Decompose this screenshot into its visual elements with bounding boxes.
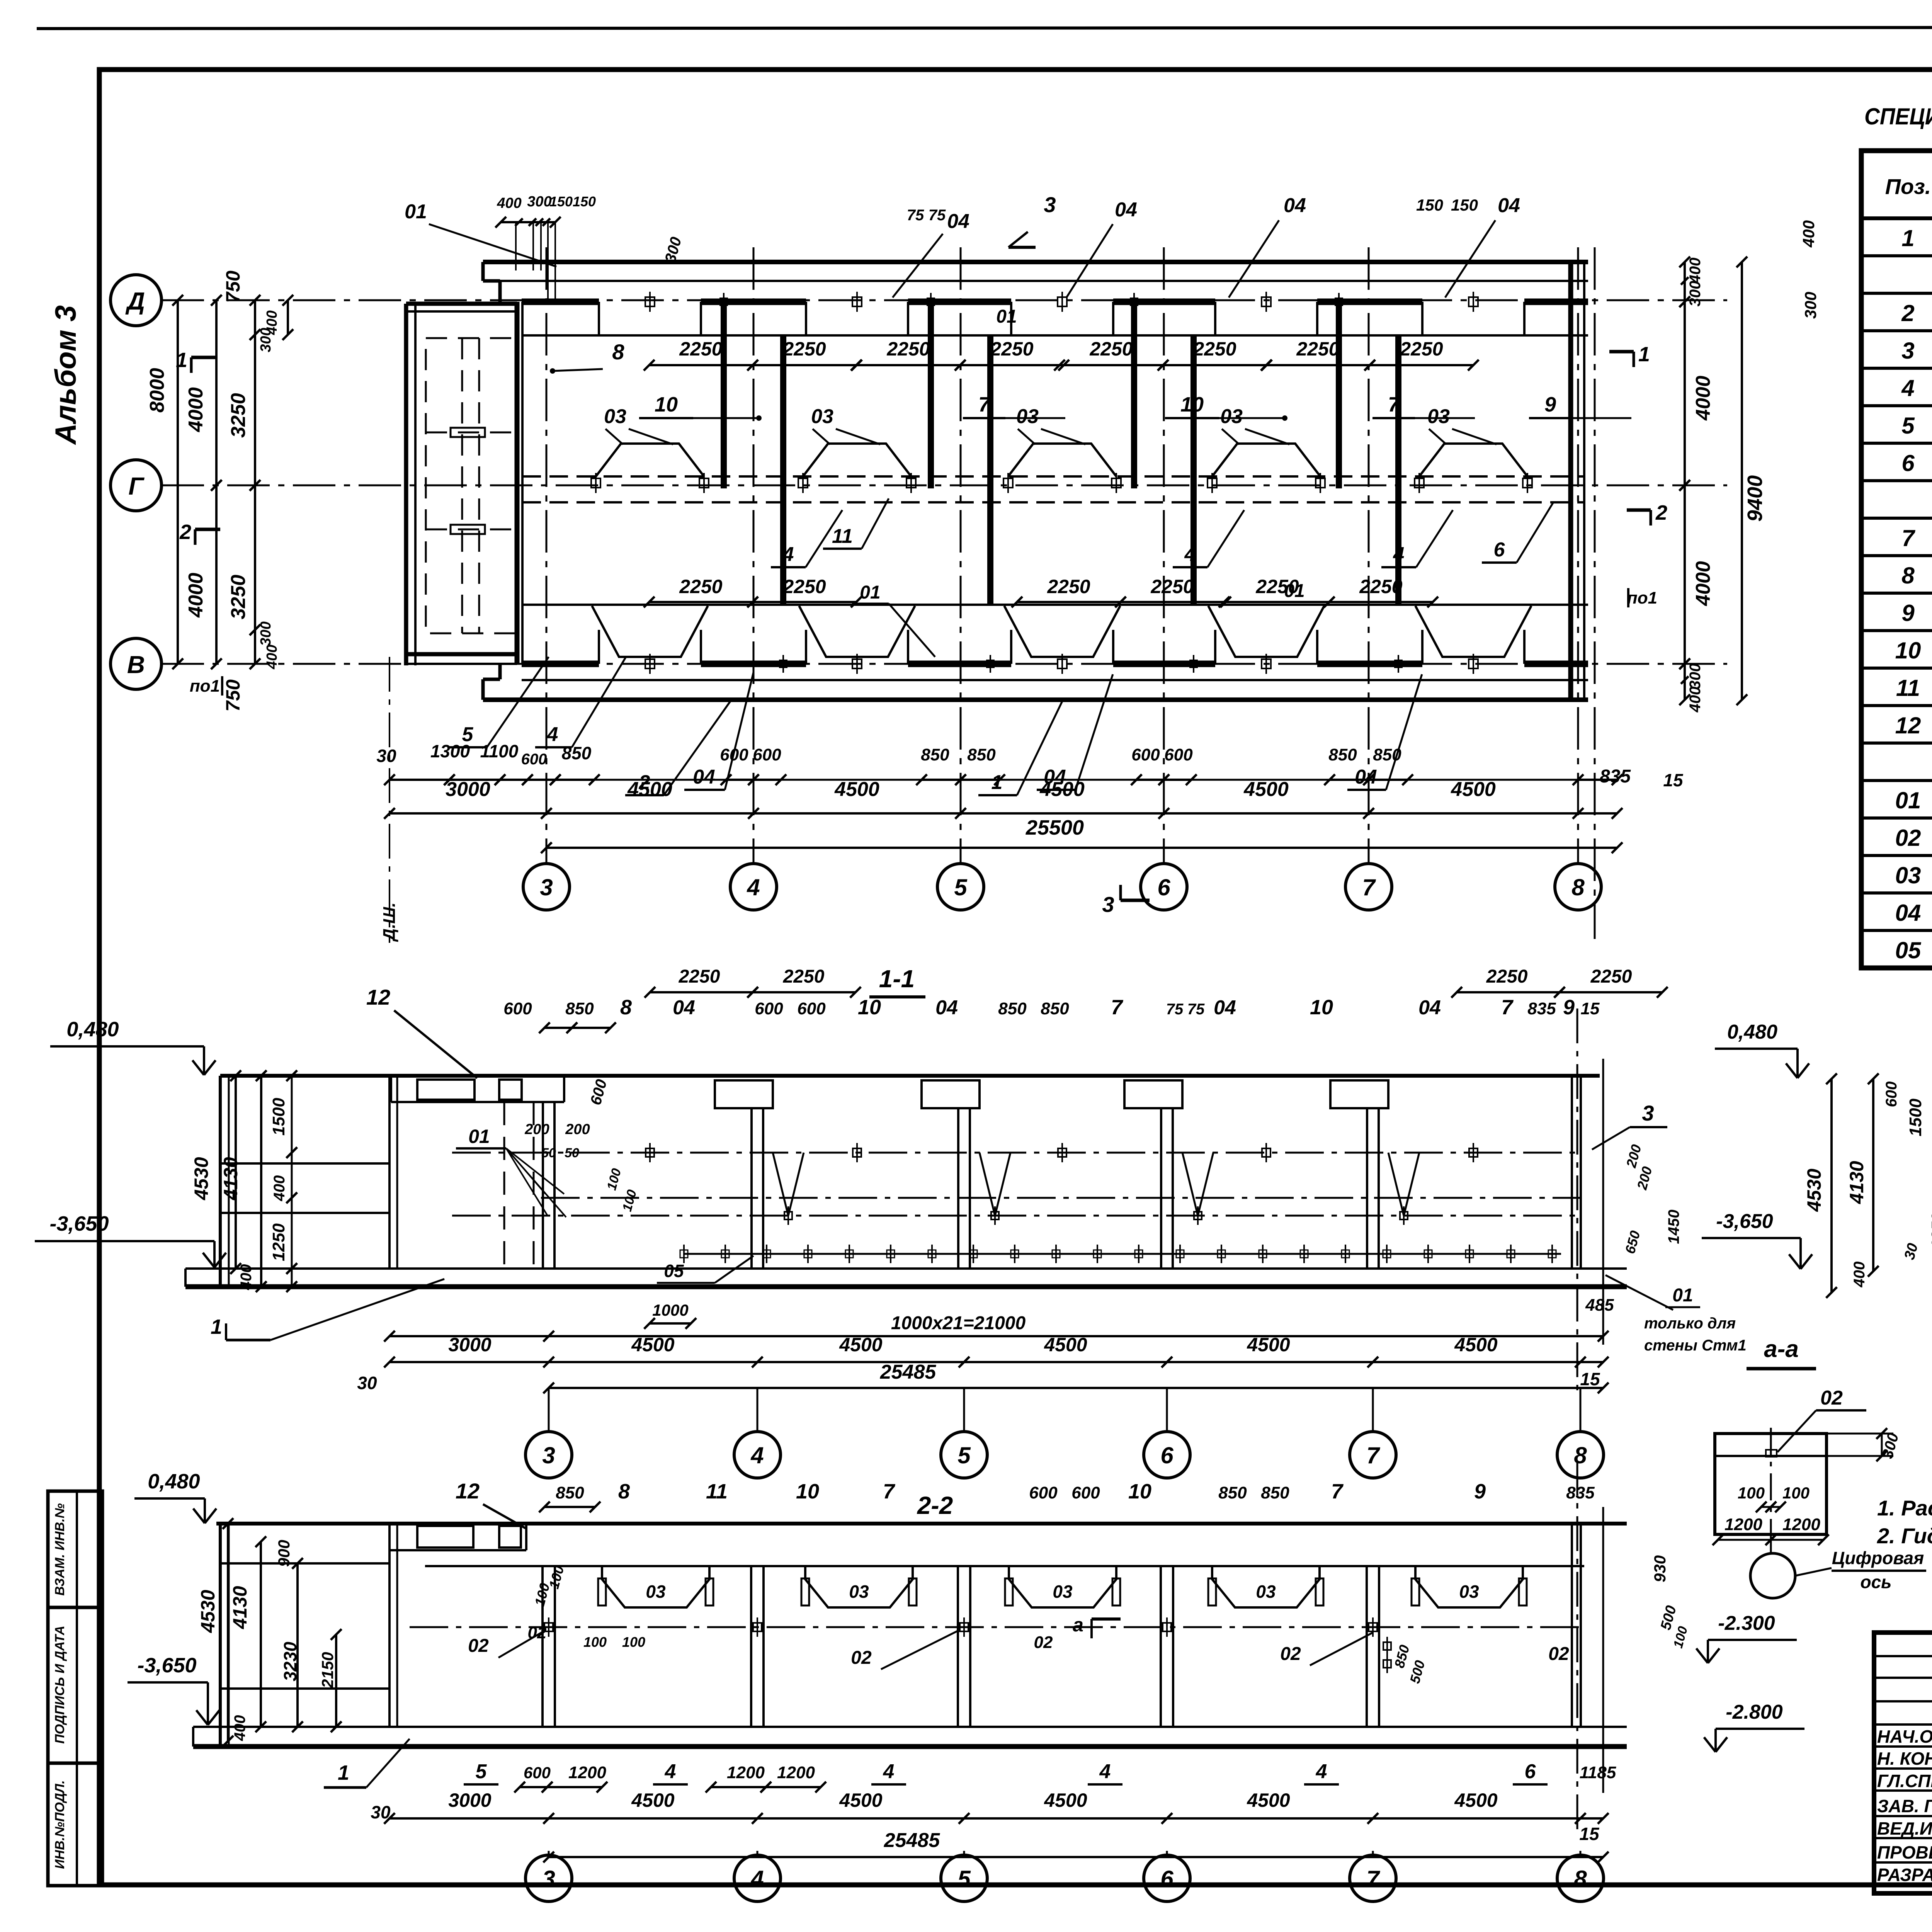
svg-text:4500: 4500 (839, 1334, 882, 1355)
svg-text:4500: 4500 (1039, 778, 1085, 801)
svg-text:100: 100 (622, 1634, 645, 1650)
svg-text:100: 100 (1738, 1484, 1765, 1502)
svg-text:4: 4 (1901, 375, 1914, 401)
svg-text:1185: 1185 (1580, 1763, 1616, 1782)
svg-text:4500: 4500 (1247, 1789, 1290, 1811)
plan bottom band beams (592, 606, 708, 657)
svg-text:75: 75 (929, 207, 946, 224)
svg-text:03: 03 (1220, 405, 1243, 428)
svg-text:3250: 3250 (227, 393, 250, 438)
svg-text:только для: только для (1644, 1315, 1736, 1332)
svg-text:10: 10 (1128, 1480, 1151, 1503)
svg-text:400: 400 (264, 645, 280, 669)
svg-text:2250: 2250 (886, 338, 930, 360)
svg-text:4: 4 (750, 1442, 764, 1468)
svg-text:1200: 1200 (1725, 1515, 1762, 1534)
svg-text:по1: по1 (1627, 588, 1657, 607)
svg-text:200: 200 (565, 1121, 590, 1138)
svg-text:850: 850 (998, 999, 1027, 1018)
svg-text:1: 1 (211, 1315, 222, 1338)
svg-text:03: 03 (1895, 862, 1921, 888)
svg-text:02: 02 (1280, 1644, 1301, 1664)
svg-text:4530: 4530 (197, 1590, 219, 1633)
plan wall on axis Д (522, 299, 599, 305)
svg-text:400: 400 (271, 1175, 288, 1202)
svg-text:6: 6 (1525, 1760, 1536, 1783)
svg-text:850: 850 (1373, 745, 1401, 764)
svg-text:1200: 1200 (1782, 1515, 1820, 1534)
svg-text:6: 6 (1494, 539, 1505, 561)
svg-text:a-a: a-a (1764, 1336, 1799, 1362)
svg-text:1250: 1250 (269, 1223, 288, 1261)
svg-text:300: 300 (1801, 292, 1820, 319)
svg-text:4500: 4500 (631, 1789, 674, 1811)
svg-text:стены Стм1: стены Стм1 (1644, 1337, 1747, 1354)
svg-text:a: a (1073, 1614, 1083, 1636)
svg-text:850: 850 (556, 1483, 584, 1502)
svg-text:4130: 4130 (229, 1586, 251, 1629)
svg-text:150: 150 (549, 194, 573, 209)
svg-text:150: 150 (1451, 196, 1478, 214)
svg-text:2250: 2250 (679, 966, 720, 987)
svg-text:25485: 25485 (880, 1361, 937, 1383)
svg-text:4: 4 (782, 543, 794, 566)
svg-text:03: 03 (849, 1582, 869, 1602)
svg-text:850: 850 (565, 999, 594, 1018)
svg-text:30: 30 (371, 1802, 391, 1822)
svg-text:2. Гидроизоляцию тоннеля см л: 2. Гидроизоляцию тоннеля см л. 61, 62 (1877, 1524, 1932, 1548)
svg-text:03: 03 (1427, 405, 1450, 428)
svg-text:50: 50 (541, 1146, 556, 1160)
svg-text:8: 8 (1574, 1442, 1587, 1468)
svg-text:2250: 2250 (782, 576, 826, 597)
section 1-1 roof notches (715, 1080, 773, 1108)
svg-text:835: 835 (1566, 1483, 1595, 1502)
svg-text:485: 485 (1585, 1296, 1614, 1315)
svg-text:7: 7 (1501, 996, 1514, 1019)
svg-text:30: 30 (376, 746, 396, 766)
svg-text:1100: 1100 (480, 741, 519, 761)
svg-text:02: 02 (528, 1623, 547, 1642)
svg-text:600: 600 (1883, 1082, 1900, 1107)
svg-text:4500: 4500 (631, 1334, 674, 1355)
svg-text:1000: 1000 (652, 1301, 688, 1319)
svg-text:03: 03 (1459, 1582, 1479, 1602)
svg-text:1300: 1300 (430, 741, 470, 761)
svg-text:1200: 1200 (777, 1763, 815, 1782)
svg-text:600: 600 (755, 999, 783, 1018)
plan grid lines horizontal (162, 299, 1727, 301)
svg-text:12: 12 (366, 985, 390, 1009)
svg-text:1: 1 (338, 1761, 349, 1784)
plan left end / intake Ум1 (481, 262, 485, 281)
svg-text:6: 6 (1160, 1866, 1173, 1892)
svg-text:5: 5 (954, 874, 968, 900)
svg-text:В: В (127, 651, 145, 679)
svg-text:-3,650: -3,650 (49, 1212, 109, 1235)
svg-text:9: 9 (1901, 600, 1915, 626)
svg-text:300: 300 (1687, 663, 1704, 689)
svg-text:4000: 4000 (1692, 561, 1714, 606)
svg-text:3: 3 (540, 874, 553, 900)
svg-text:0,480: 0,480 (148, 1470, 200, 1493)
svg-text:Поз.: Поз. (1885, 174, 1931, 199)
svg-text:600: 600 (524, 1764, 551, 1782)
svg-text:3: 3 (1901, 338, 1914, 364)
svg-text:Альбом 3: Альбом 3 (49, 305, 82, 445)
svg-text:02: 02 (1895, 825, 1921, 851)
svg-text:10: 10 (655, 393, 678, 416)
svg-text:400: 400 (231, 1715, 248, 1742)
svg-text:03: 03 (1016, 405, 1039, 428)
left stamp strip (48, 1491, 102, 1886)
svg-text:300: 300 (527, 194, 551, 210)
svg-text:04: 04 (1355, 766, 1377, 788)
svg-text:ИНВ.№ПОДЛ.: ИНВ.№ПОДЛ. (53, 1780, 67, 1869)
svg-text:850: 850 (1218, 1483, 1247, 1502)
section 1-1 circles (526, 1432, 572, 1478)
svg-text:600: 600 (1164, 745, 1193, 764)
svg-text:СПЕЦИФИКАЦИЯ К СХЕМЕ РАСПОЛО: СПЕЦИФИКАЦИЯ К СХЕМЕ РАСПОЛОЖЕНИЯ КОНСТР… (1864, 104, 1932, 129)
svg-text:400: 400 (1799, 220, 1818, 248)
svg-text:8: 8 (620, 996, 632, 1019)
svg-text:02: 02 (851, 1648, 872, 1668)
svg-text:10: 10 (1895, 638, 1921, 663)
plan bottom dimension rows (389, 779, 1617, 781)
svg-text:7: 7 (1366, 1866, 1380, 1892)
svg-text:4500: 4500 (1454, 1789, 1497, 1811)
plan 25500 dimension row (546, 847, 1617, 849)
svg-text:11: 11 (832, 525, 853, 548)
svg-text:ВЕД.ИНЖ.: ВЕД.ИНЖ. (1877, 1818, 1932, 1838)
svg-text:4130: 4130 (220, 1157, 241, 1200)
svg-text:850: 850 (562, 743, 592, 763)
svg-text:9: 9 (1544, 393, 1556, 416)
svg-text:2250: 2250 (1089, 338, 1133, 360)
svg-text:11: 11 (706, 1480, 728, 1503)
svg-text:750: 750 (222, 270, 244, 303)
svg-text:3: 3 (1102, 892, 1114, 917)
svg-text:02: 02 (1548, 1644, 1569, 1664)
svg-text:04: 04 (1115, 199, 1137, 221)
svg-text:2250: 2250 (1590, 966, 1632, 987)
svg-text:9400: 9400 (1743, 475, 1767, 522)
svg-text:600: 600 (720, 745, 748, 764)
svg-text:1. Расчетную схему тоннеля см: 1. Расчетную схему тоннеля см. л. 64 (1877, 1496, 1932, 1520)
svg-text:04: 04 (693, 766, 715, 788)
svg-text:02: 02 (1034, 1633, 1053, 1652)
section 1-1 rebar chains (452, 1152, 1580, 1154)
plan right dimension chains (1684, 262, 1686, 302)
svg-text:400: 400 (1851, 1262, 1868, 1288)
svg-text:25485: 25485 (884, 1829, 940, 1852)
plan left dimension chains (177, 300, 179, 664)
svg-text:30: 30 (357, 1373, 377, 1393)
svg-text:Цифровая: Цифровая (1832, 1548, 1924, 1568)
svg-text:7: 7 (1366, 1442, 1380, 1468)
svg-text:8000: 8000 (146, 368, 168, 413)
svg-text:2: 2 (179, 520, 191, 544)
svg-text:3: 3 (1044, 192, 1056, 217)
svg-text:04: 04 (947, 210, 969, 233)
svg-text:7: 7 (1111, 996, 1124, 1019)
svg-text:4500: 4500 (839, 1789, 882, 1811)
svg-text:12: 12 (456, 1479, 480, 1503)
svg-text:2250: 2250 (1150, 576, 1194, 597)
plan right end wall (1568, 262, 1573, 700)
svg-text:0,480: 0,480 (66, 1018, 119, 1041)
plan anchor marks 01/04 (645, 297, 655, 306)
section 1-1 right end (1571, 1076, 1573, 1269)
svg-text:02: 02 (468, 1636, 489, 1656)
svg-text:1500: 1500 (1906, 1099, 1925, 1136)
svg-text:3000: 3000 (446, 778, 490, 801)
svg-text:150: 150 (573, 194, 596, 209)
svg-text:4500: 4500 (1451, 778, 1496, 801)
svg-text:03: 03 (1256, 1582, 1276, 1602)
svg-text:04: 04 (1214, 997, 1236, 1019)
svg-text:2250: 2250 (679, 576, 722, 597)
svg-text:8: 8 (1574, 1866, 1587, 1892)
svg-text:по1: по1 (190, 677, 220, 696)
detail a-a (1715, 1434, 1827, 1534)
svg-text:2150: 2150 (318, 1652, 337, 1688)
svg-text:835: 835 (1527, 999, 1556, 1018)
svg-text:5: 5 (476, 1760, 487, 1783)
svg-text:9: 9 (1563, 996, 1575, 1019)
svg-text:10: 10 (796, 1480, 819, 1503)
svg-text:300: 300 (1687, 281, 1704, 307)
svg-text:850: 850 (1328, 745, 1357, 764)
svg-text:8: 8 (612, 340, 624, 364)
svg-text:3: 3 (542, 1442, 555, 1468)
svg-text:2250: 2250 (1400, 338, 1443, 360)
svg-text:850: 850 (1041, 999, 1069, 1018)
svg-text:4130: 4130 (1846, 1161, 1867, 1204)
svg-text:4: 4 (750, 1866, 764, 1892)
svg-text:10: 10 (1180, 393, 1204, 416)
svg-text:3000: 3000 (448, 1789, 491, 1811)
plan outer walls (483, 260, 1588, 264)
svg-text:01: 01 (1895, 787, 1921, 813)
svg-text:ВЗАМ. ИНВ.№: ВЗАМ. ИНВ.№ (53, 1503, 67, 1595)
svg-text:10: 10 (858, 996, 881, 1019)
plan 4500 dimension row (389, 812, 1617, 815)
svg-text:03: 03 (1053, 1582, 1073, 1602)
svg-text:ГЛ.СПЕЦ.: ГЛ.СПЕЦ. (1877, 1771, 1932, 1791)
svg-text:50: 50 (565, 1146, 579, 1160)
svg-text:6: 6 (1157, 874, 1170, 900)
section 2-2 right end (1571, 1524, 1573, 1727)
svg-text:ось: ось (1861, 1572, 1892, 1592)
svg-text:3000: 3000 (448, 1334, 491, 1355)
svg-text:9: 9 (1474, 1480, 1486, 1503)
svg-text:-2.300: -2.300 (1718, 1612, 1775, 1634)
svg-text:2250: 2250 (679, 338, 722, 360)
svg-text:7: 7 (1362, 874, 1376, 900)
svg-text:835: 835 (1600, 766, 1631, 787)
svg-text:1-1: 1-1 (879, 965, 915, 993)
svg-text:2-2: 2-2 (917, 1492, 953, 1519)
svg-text:7: 7 (883, 1480, 896, 1503)
svg-text:2250: 2250 (783, 966, 825, 987)
svg-text:1: 1 (1638, 343, 1650, 366)
svg-text:4: 4 (1184, 543, 1196, 566)
plan wall on axis В (522, 661, 599, 667)
svg-text:01: 01 (468, 1126, 490, 1147)
sheet top edge (37, 27, 1932, 29)
svg-text:4530: 4530 (190, 1157, 212, 1200)
svg-text:15: 15 (1663, 770, 1684, 790)
svg-text:15: 15 (1581, 999, 1600, 1018)
section 2-2 body (216, 1522, 1627, 1526)
svg-text:600: 600 (753, 745, 781, 764)
svg-text:8: 8 (618, 1480, 630, 1503)
svg-text:04: 04 (1418, 997, 1441, 1019)
svg-text:5: 5 (1901, 413, 1915, 439)
svg-text:4: 4 (1316, 1760, 1327, 1783)
svg-text:12: 12 (1895, 713, 1921, 738)
svg-text:1250: 1250 (1928, 1213, 1932, 1248)
svg-text:4500: 4500 (1044, 1334, 1087, 1355)
svg-text:01: 01 (860, 582, 880, 603)
svg-text:930: 930 (1651, 1555, 1669, 1582)
svg-text:4: 4 (547, 723, 558, 746)
svg-text:01: 01 (996, 306, 1017, 327)
svg-text:2250: 2250 (1047, 576, 1090, 597)
title block (1874, 1633, 1932, 1893)
svg-text:04: 04 (1498, 194, 1520, 217)
svg-text:850: 850 (921, 745, 949, 764)
svg-text:1000х21=21000: 1000х21=21000 (891, 1313, 1026, 1333)
svg-text:04: 04 (673, 997, 695, 1019)
svg-text:4500: 4500 (834, 778, 879, 801)
svg-text:01: 01 (1672, 1285, 1693, 1306)
svg-text:Н. КОНТР.: Н. КОНТР. (1877, 1748, 1932, 1769)
svg-text:РАЗРАБ.: РАЗРАБ. (1877, 1865, 1932, 1885)
svg-text:3: 3 (542, 1866, 555, 1892)
svg-text:1: 1 (1901, 225, 1914, 251)
svg-text:4: 4 (883, 1760, 895, 1783)
svg-text:7: 7 (1331, 1480, 1344, 1503)
svg-text:04: 04 (1895, 900, 1921, 926)
svg-text:01: 01 (405, 201, 427, 223)
section 1-1 wall lines at grids (542, 1102, 544, 1269)
svg-text:Д: Д (125, 287, 145, 315)
svg-text:4530: 4530 (1803, 1168, 1825, 1212)
svg-text:8: 8 (1901, 563, 1915, 588)
svg-text:75: 75 (1166, 1001, 1184, 1018)
svg-text:7: 7 (1901, 525, 1915, 551)
spec table grid (1861, 151, 1932, 968)
svg-text:-2.800: -2.800 (1726, 1701, 1783, 1723)
svg-text:1200: 1200 (727, 1763, 765, 1782)
svg-text:03: 03 (604, 405, 626, 428)
svg-text:4: 4 (747, 874, 760, 900)
svg-text:4500: 4500 (627, 778, 672, 801)
svg-text:600: 600 (521, 751, 547, 768)
svg-text:4: 4 (665, 1760, 676, 1783)
svg-text:4: 4 (1099, 1760, 1111, 1783)
section 2-2 center dash line (410, 1626, 1584, 1628)
svg-text:4000: 4000 (185, 387, 207, 432)
svg-text:400: 400 (238, 1264, 255, 1291)
section 2-2 circles (526, 1855, 572, 1901)
svg-text:3: 3 (1642, 1101, 1654, 1125)
svg-text:03: 03 (646, 1582, 666, 1602)
svg-text:3250: 3250 (227, 575, 250, 619)
svg-text:ПОДПИСЬ И ДАТА: ПОДПИСЬ И ДАТА (53, 1626, 67, 1744)
svg-text:11: 11 (1896, 675, 1920, 701)
svg-text:2250: 2250 (1296, 338, 1339, 360)
svg-text:10: 10 (1310, 996, 1333, 1019)
svg-text:2: 2 (1655, 501, 1667, 524)
svg-text:400: 400 (1687, 258, 1704, 284)
plan cross walls (721, 303, 727, 488)
svg-text:5: 5 (957, 1442, 971, 1468)
plan column circles (523, 864, 570, 910)
svg-text:-3,650: -3,650 (137, 1654, 196, 1677)
svg-text:1: 1 (176, 349, 187, 372)
svg-text:4500: 4500 (1243, 778, 1289, 801)
svg-text:300: 300 (258, 328, 274, 352)
svg-text:2250: 2250 (1193, 338, 1236, 360)
svg-text:03: 03 (811, 405, 833, 428)
svg-text:-3,650: -3,650 (1716, 1210, 1773, 1233)
svg-text:600: 600 (1029, 1483, 1058, 1502)
svg-text:1450: 1450 (1665, 1210, 1682, 1244)
svg-text:600: 600 (503, 999, 532, 1018)
svg-text:4500: 4500 (1247, 1334, 1290, 1355)
svg-text:200: 200 (524, 1121, 549, 1138)
svg-text:1500: 1500 (269, 1098, 288, 1136)
plan grid letter circles (111, 275, 162, 326)
svg-text:01: 01 (1284, 581, 1304, 601)
svg-text:4: 4 (1393, 543, 1405, 566)
svg-text:02: 02 (1820, 1387, 1843, 1409)
svg-text:25500: 25500 (1026, 816, 1084, 839)
svg-text:4000: 4000 (185, 573, 207, 618)
svg-text:2: 2 (1901, 300, 1914, 326)
svg-text:2250: 2250 (1359, 576, 1402, 597)
svg-text:ПРОВЕР.: ПРОВЕР. (1877, 1842, 1932, 1862)
svg-text:8: 8 (1571, 874, 1585, 900)
svg-text:75: 75 (907, 207, 924, 224)
svg-text:2250: 2250 (1486, 966, 1528, 987)
svg-text:0,480: 0,480 (1727, 1021, 1777, 1043)
svg-text:5: 5 (957, 1866, 971, 1892)
section 1-1 body (220, 1074, 1600, 1078)
svg-text:6: 6 (1901, 450, 1915, 476)
svg-text:15: 15 (1580, 1369, 1600, 1389)
svg-text:1200: 1200 (568, 1763, 606, 1782)
svg-text:7: 7 (978, 393, 991, 416)
svg-text:850: 850 (967, 745, 996, 764)
section 2-2 beam trapezoids 03 (602, 1566, 709, 1607)
svg-text:400: 400 (1687, 687, 1704, 713)
section 1-1 bottom dims (650, 1322, 691, 1325)
svg-text:400: 400 (497, 195, 521, 211)
svg-text:600: 600 (1131, 745, 1160, 764)
svg-text:05: 05 (1895, 937, 1922, 963)
svg-text:600: 600 (1071, 1483, 1100, 1502)
svg-text:75: 75 (1187, 1001, 1205, 1018)
svg-text:100: 100 (1782, 1484, 1810, 1502)
svg-text:100: 100 (583, 1634, 607, 1650)
svg-text:04: 04 (935, 997, 958, 1019)
svg-text:600: 600 (797, 999, 826, 1018)
section 2-2 walls at grids (541, 1566, 544, 1727)
